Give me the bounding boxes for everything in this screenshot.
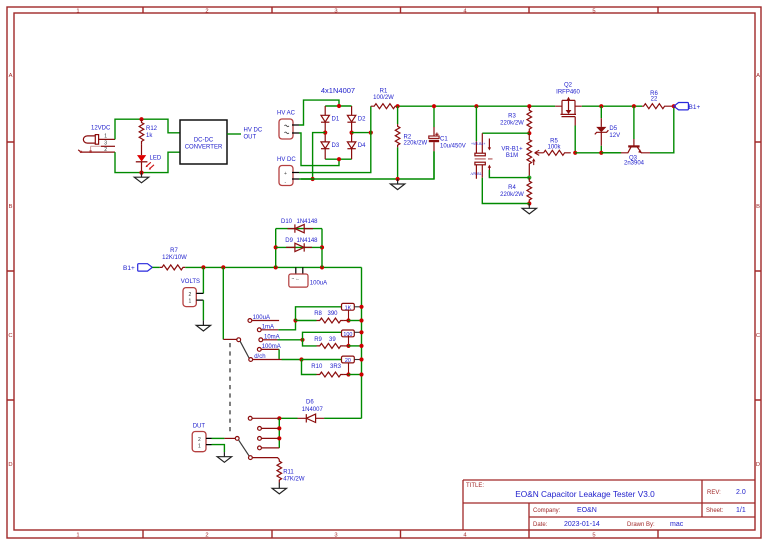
svg-text:R8: R8 bbox=[314, 311, 322, 317]
junction d/ch feed bbox=[299, 357, 303, 361]
svg-text:2: 2 bbox=[189, 292, 192, 298]
wire R1 right to Q2 bbox=[398, 105, 556, 107]
svg-text:R9: R9 bbox=[314, 337, 322, 343]
svg-text:4x1N4007: 4x1N4007 bbox=[321, 86, 355, 95]
svg-text:12K/10W: 12K/10W bbox=[162, 255, 187, 261]
junction C1 top bbox=[432, 104, 436, 108]
svg-text:~ ←: ~ ← bbox=[292, 276, 300, 281]
svg-text:100uA: 100uA bbox=[253, 315, 270, 321]
junction B1+ node bbox=[672, 104, 676, 108]
resistor R6 bbox=[642, 104, 673, 109]
contact deck2 d/ch bbox=[249, 456, 253, 460]
wire D6 left to contacts bus bbox=[279, 417, 297, 419]
svg-text:B: B bbox=[756, 204, 760, 210]
svg-text:1: 1 bbox=[76, 9, 79, 15]
resistor R10 bbox=[317, 372, 344, 377]
wire contact d/ch to R10 node bbox=[253, 359, 282, 361]
svg-text:+VR-B1+: +VR-B1+ bbox=[471, 142, 485, 146]
jack switch contact hook bbox=[78, 150, 81, 152]
DUT pin stubs bbox=[206, 438, 212, 444]
trimmer 20 right pin bbox=[354, 359, 361, 361]
svg-text:R10: R10 bbox=[311, 364, 323, 370]
wire R9 feed up to trimmer 100 bbox=[303, 332, 342, 340]
wire bridge top rail bbox=[325, 105, 351, 107]
TITLE BLOCK bbox=[463, 480, 755, 530]
trimmer 20 bottom pin bbox=[348, 363, 350, 375]
svg-text:Date:: Date: bbox=[533, 522, 548, 528]
svg-text:100k: 100k bbox=[547, 145, 561, 151]
svg-text:D9: D9 bbox=[285, 238, 293, 244]
wire R9 feed down bbox=[303, 340, 317, 346]
svg-text:1: 1 bbox=[104, 133, 107, 139]
svg-text:100mA: 100mA bbox=[262, 344, 281, 350]
svg-text:1N4007: 1N4007 bbox=[302, 407, 324, 413]
svg-text:Sheet:: Sheet: bbox=[706, 508, 724, 514]
plug top arrow bbox=[488, 147, 491, 150]
svg-text:1k: 1k bbox=[146, 133, 153, 139]
resistor R2 bbox=[395, 124, 400, 147]
wire contact2 stub bbox=[262, 427, 280, 429]
svg-text:5: 5 bbox=[592, 533, 595, 539]
svg-text:Q2: Q2 bbox=[564, 83, 573, 89]
svg-text:220k/2W: 220k/2W bbox=[500, 192, 524, 198]
svg-text:47K/2W: 47K/2W bbox=[283, 477, 305, 483]
wire D10 row bbox=[276, 228, 322, 230]
svg-text:IRFP460: IRFP460 bbox=[556, 90, 580, 96]
junction bridge mid-right bbox=[350, 131, 354, 135]
junction D-pair right bbox=[320, 265, 324, 269]
wire d/ch row to trimmer 20 bbox=[302, 359, 342, 361]
C1 top lead bbox=[433, 127, 435, 136]
wire contact1 stub bbox=[252, 417, 279, 419]
junction D9 left bbox=[274, 245, 278, 249]
svg-text:EO&N Capacitor Leakage Tester: EO&N Capacitor Leakage Tester V3.0 bbox=[515, 489, 655, 499]
svg-text:C: C bbox=[8, 333, 12, 339]
junction 10mA feed bbox=[300, 338, 304, 342]
wire contacts bus vertical bbox=[278, 418, 280, 448]
wire C1 bottom to gnd rail bbox=[433, 151, 435, 179]
svg-text:390: 390 bbox=[328, 311, 339, 317]
svg-text:R11: R11 bbox=[283, 470, 294, 476]
svg-text:Company:: Company: bbox=[533, 508, 561, 514]
wire Q3 collector bbox=[633, 106, 635, 139]
svg-text:+: + bbox=[284, 171, 287, 177]
top column ticks bbox=[143, 7, 658, 13]
VR lower adjust arrow bbox=[533, 161, 535, 166]
svg-text:D3: D3 bbox=[332, 143, 340, 149]
wire contact 100uA stub bbox=[252, 320, 279, 322]
svg-text:VR-B1+: VR-B1+ bbox=[501, 147, 523, 153]
svg-text:HV DC: HV DC bbox=[277, 157, 296, 163]
svg-text:22: 22 bbox=[651, 97, 658, 103]
switch SW1b wiper bbox=[239, 440, 249, 456]
resistor R3 bbox=[527, 106, 532, 133]
junction rail 1K bbox=[359, 305, 363, 309]
junction R2 top bbox=[396, 104, 400, 108]
junction rail 20 bbox=[359, 357, 363, 361]
svg-text:REV:: REV: bbox=[707, 490, 721, 496]
switch coupling dashed link bbox=[229, 343, 231, 434]
wire R8 right to rail bbox=[344, 320, 349, 322]
junction rail R8 bbox=[359, 318, 363, 322]
trimmer box 1K bbox=[342, 303, 355, 310]
diode D4 bbox=[347, 133, 355, 160]
MOSFET Q2 bbox=[555, 100, 582, 125]
ground under R11 bbox=[278, 483, 280, 489]
svg-text:1: 1 bbox=[189, 299, 192, 305]
ground under VOLTS bbox=[202, 320, 204, 325]
svg-text:D4: D4 bbox=[358, 143, 366, 149]
plug bottom arrow bbox=[488, 165, 491, 168]
svg-text:HV AC: HV AC bbox=[277, 111, 296, 117]
junction Q3 collector top bbox=[632, 104, 636, 108]
junction R8 right bbox=[346, 318, 350, 322]
capacitor C1 plates bbox=[429, 136, 439, 138]
junction HV+ node bbox=[369, 131, 373, 135]
LED light arrows bbox=[147, 162, 155, 168]
panel plug pair P1 bottom half bbox=[475, 162, 490, 179]
svg-text:-VR-B1-: -VR-B1- bbox=[470, 172, 483, 176]
junction LED bottom bbox=[139, 171, 143, 175]
junction rail R9 bbox=[359, 344, 363, 348]
switch SW1b pole contact bbox=[235, 437, 239, 441]
HV AC pin stubs bbox=[292, 125, 299, 133]
junction gnd rail bbox=[396, 177, 400, 181]
wire jack to R12 top rail bbox=[115, 119, 180, 139]
svg-text:R3: R3 bbox=[508, 114, 516, 120]
junction gate/R5 bbox=[573, 151, 577, 155]
diode D2 bbox=[347, 106, 355, 133]
LED cathode bar bbox=[136, 161, 148, 163]
wire HV DC OUT bbox=[227, 133, 241, 135]
svg-text:D1: D1 bbox=[332, 117, 340, 123]
wire contact4 stub bbox=[262, 447, 280, 449]
junction D5 bottom bbox=[599, 151, 603, 155]
wire R10 right to rail bbox=[344, 374, 349, 376]
junction D-pair left bbox=[274, 265, 278, 269]
wire plug top to VR top bbox=[482, 132, 529, 134]
trimmer 100 right pin bbox=[354, 331, 361, 333]
svg-text:DC-DC: DC-DC bbox=[194, 138, 214, 144]
contact deck2 pos4 bbox=[258, 446, 262, 450]
svg-text:2.0: 2.0 bbox=[736, 489, 746, 496]
junction R3 bottom / VR top bbox=[527, 131, 531, 135]
contact deck2 pos1 bbox=[248, 416, 252, 420]
svg-text:39: 39 bbox=[329, 337, 336, 343]
junction R4 bottom bbox=[527, 201, 531, 205]
resistor R7 bbox=[160, 265, 185, 270]
Q3 emitter arrow bbox=[638, 149, 642, 153]
wire mid-left to HV DC pin2 bbox=[301, 133, 325, 179]
svg-text:D6: D6 bbox=[306, 400, 314, 406]
wire rail to panel plug top bbox=[475, 106, 477, 141]
wire Q2 drain rail to R6 bbox=[582, 105, 642, 107]
svg-text:3R3: 3R3 bbox=[330, 364, 342, 370]
junction panel plug drop bbox=[474, 104, 478, 108]
wire LED gnd node to DC-DC lower pin bbox=[142, 152, 181, 172]
bottom column ticks bbox=[143, 530, 658, 538]
svg-text:220k/2W: 220k/2W bbox=[500, 121, 524, 127]
wire HV AC pin2 to bridge bottom bbox=[299, 133, 339, 166]
svg-text:HV DC: HV DC bbox=[244, 127, 263, 133]
capacitor C1 polarity + bbox=[435, 133, 438, 136]
wire mid-right to HV+ node bbox=[352, 132, 371, 134]
wire R8 feed up to trimmer 1K bbox=[296, 307, 342, 321]
diode D1 bbox=[321, 106, 329, 133]
wire C1 top bbox=[433, 106, 435, 127]
svg-text:R4: R4 bbox=[508, 185, 516, 191]
switch SW1a pole contact bbox=[237, 338, 241, 342]
svg-text:20: 20 bbox=[345, 358, 351, 364]
svg-text:3: 3 bbox=[334, 533, 337, 539]
junction bus 3 bbox=[277, 436, 281, 440]
trimmer box 100 bbox=[342, 330, 355, 337]
junction top of R12 bbox=[139, 117, 143, 121]
svg-text:DUT: DUT bbox=[193, 424, 206, 430]
wire R10 feed down bbox=[302, 360, 317, 375]
junction bridge bottom bbox=[337, 157, 341, 161]
connector VOLTS bbox=[183, 288, 196, 307]
svg-text:10u/450V: 10u/450V bbox=[440, 144, 466, 150]
connector HV DC bbox=[279, 166, 293, 186]
svg-text:B: B bbox=[9, 204, 13, 210]
svg-text:C1: C1 bbox=[440, 137, 448, 143]
HV DC pin stubs bbox=[292, 173, 299, 180]
C1 bottom lead bbox=[433, 142, 435, 151]
meter M1 body bbox=[289, 274, 308, 287]
junction VR bottom bbox=[527, 176, 531, 180]
pin 2 lead bbox=[81, 151, 115, 153]
DC-DC converter module U? bbox=[180, 120, 227, 164]
svg-text:2: 2 bbox=[104, 147, 107, 153]
wire DUT pin2 to pole bbox=[212, 437, 225, 439]
wire HV AC pin1 to bridge top bbox=[299, 100, 339, 125]
svg-text:5: 5 bbox=[592, 9, 595, 15]
transistor Q3 bbox=[621, 139, 650, 153]
wire D9 row bbox=[276, 246, 322, 248]
wire rail to VOLTS pin2 bbox=[202, 267, 204, 293]
junction contacts bus top bbox=[277, 416, 281, 420]
trimmer 100 bottom pin bbox=[348, 335, 350, 346]
svg-text:1: 1 bbox=[76, 533, 79, 539]
junction bridge top bbox=[337, 104, 341, 108]
wire HV+ vertical R1 left / HV DC pin1 bbox=[299, 106, 371, 172]
svg-text:2n3904: 2n3904 bbox=[624, 161, 645, 167]
junction D9 right bbox=[320, 245, 324, 249]
contact 100uA bbox=[248, 319, 252, 323]
wire metering rail vertical bbox=[361, 267, 363, 418]
panel plug pair P1 top half bbox=[475, 133, 490, 156]
resistor R8 bbox=[317, 318, 344, 323]
wire flag to R7 bbox=[152, 266, 160, 268]
svg-text:D2: D2 bbox=[358, 117, 366, 123]
svg-text:B1+: B1+ bbox=[689, 104, 701, 111]
connector DUT bbox=[192, 432, 206, 452]
wire D-pair left vertical bbox=[275, 229, 277, 268]
svg-text:EO&N: EO&N bbox=[577, 507, 597, 514]
diode D9 (cathode right) bbox=[286, 243, 312, 251]
wire Q2 gate down to R5 node bbox=[574, 126, 576, 153]
connector J1 12VDC barrel jack bbox=[83, 135, 98, 145]
svg-text:D5: D5 bbox=[609, 126, 617, 132]
svg-text:1: 1 bbox=[198, 444, 201, 450]
net flag B1+ (right) bbox=[674, 103, 689, 110]
svg-text:220k/2W: 220k/2W bbox=[404, 141, 428, 147]
wire Q3 emitter to B1+ node bbox=[650, 106, 674, 152]
svg-text:3: 3 bbox=[104, 141, 107, 147]
svg-text:CONVERTER: CONVERTER bbox=[185, 144, 223, 150]
resistor R4 bbox=[527, 178, 532, 204]
svg-text:LED: LED bbox=[150, 156, 162, 162]
wire R9 right to rail bbox=[344, 345, 349, 347]
svg-text:R1: R1 bbox=[380, 89, 388, 95]
junction R3 top bbox=[527, 104, 531, 108]
wire DUT pin1 to gnd bbox=[212, 445, 225, 453]
contact 100mA bbox=[257, 348, 261, 352]
resistor R5 bbox=[544, 150, 571, 155]
diode D3 bbox=[321, 133, 329, 160]
junction HV DC pin2 node bbox=[311, 177, 315, 181]
svg-text:1N4148: 1N4148 bbox=[297, 219, 319, 225]
junction rail 100 bbox=[359, 330, 363, 334]
right row ticks bbox=[755, 142, 761, 400]
resistor R9 bbox=[317, 343, 344, 348]
VOLTS pin stubs bbox=[196, 293, 203, 300]
left row ticks bbox=[7, 142, 14, 400]
svg-text:D: D bbox=[8, 462, 12, 468]
svg-text:2023-01-14: 2023-01-14 bbox=[564, 521, 600, 528]
contact 1mA bbox=[257, 328, 261, 332]
svg-text:TITLE:: TITLE: bbox=[466, 483, 484, 489]
diode D6 (cathode left) bbox=[298, 414, 325, 422]
wire contact3 stub bbox=[262, 437, 280, 439]
wire rail to D6 bbox=[324, 417, 361, 419]
svg-text:B1+: B1+ bbox=[123, 265, 135, 272]
wire rail down to switch pole bbox=[222, 267, 224, 339]
svg-text:A: A bbox=[9, 73, 13, 79]
meter M1 pins bbox=[296, 267, 303, 274]
wire R7 to meter rail bbox=[185, 266, 361, 268]
LED bottom lead bbox=[141, 162, 143, 173]
svg-text:2: 2 bbox=[205, 9, 208, 15]
contact deck2 pos3 bbox=[258, 437, 262, 441]
svg-text:1N4148: 1N4148 bbox=[297, 238, 319, 244]
svg-text:12VDC: 12VDC bbox=[91, 126, 111, 132]
wire D5 top bbox=[600, 106, 602, 118]
junction D5 top bbox=[599, 104, 603, 108]
svg-text:VOLTS: VOLTS bbox=[181, 279, 200, 285]
svg-text:R2: R2 bbox=[404, 135, 412, 141]
svg-text:R7: R7 bbox=[170, 248, 178, 254]
pin 1 lead bbox=[99, 138, 115, 140]
svg-text:3: 3 bbox=[334, 9, 337, 15]
svg-text:D10: D10 bbox=[281, 219, 293, 225]
contact d/ch bbox=[249, 358, 253, 362]
contact 10mA bbox=[259, 338, 263, 342]
Q2 channel down arrow bbox=[566, 110, 572, 114]
wire contact 10mA to R9 node bbox=[263, 339, 278, 341]
junction bus 2 bbox=[277, 426, 281, 430]
resistor R12 bbox=[139, 119, 144, 144]
svg-text:100/2W: 100/2W bbox=[373, 95, 394, 101]
plug separation dashes bbox=[475, 158, 493, 160]
svg-text:D: D bbox=[756, 462, 760, 468]
wire d/ch contact to R11 bbox=[253, 458, 280, 460]
switch SW1a wiper bbox=[240, 341, 249, 358]
trimmer box 20 bbox=[342, 356, 355, 363]
junction R10 right bbox=[346, 372, 350, 376]
svg-text:R12: R12 bbox=[146, 126, 158, 132]
wire 100mA down to d/ch row bbox=[278, 349, 280, 359]
connector HV AC bbox=[279, 119, 293, 139]
svg-text:1mA: 1mA bbox=[262, 324, 274, 330]
HV AC tilde marks bbox=[285, 125, 289, 127]
svg-text:Drawn By:: Drawn By: bbox=[627, 522, 655, 528]
wire plug left to R4 bottom bbox=[482, 178, 529, 204]
Q2 substrate up arrow bbox=[567, 97, 571, 100]
wire gate node to D5 bottom bbox=[575, 152, 621, 154]
net flag B1+ (left) bbox=[138, 264, 153, 271]
junction VOLTS drop bbox=[201, 265, 205, 269]
trimmer 1K bottom pin bbox=[348, 310, 350, 321]
svg-text:d/ch: d/ch bbox=[254, 354, 265, 360]
contact deck2 pos2 bbox=[258, 427, 262, 431]
ground under R2 bbox=[397, 179, 399, 184]
ground under LED bbox=[141, 173, 143, 178]
svg-text:B1M: B1M bbox=[506, 153, 518, 159]
resistor R11 bbox=[277, 459, 282, 482]
wire bridge bottom rail bbox=[325, 158, 351, 160]
wire contact 1mA to R8 node bbox=[262, 329, 279, 331]
wire plug right pin to VR bottom bbox=[489, 170, 529, 178]
junction switch drop bbox=[221, 265, 225, 269]
wire R2 bottom to gnd rail bbox=[397, 147, 399, 179]
resistor R1 bbox=[371, 104, 399, 109]
wire HV DC pin2 negative rail bbox=[299, 151, 434, 179]
svg-text:100uA: 100uA bbox=[310, 281, 327, 287]
diode D10 (cathode left) bbox=[288, 224, 314, 232]
svg-text:mac: mac bbox=[670, 521, 684, 528]
wire VOLTS pin1 to gnd bbox=[202, 300, 204, 320]
wire R8 row bbox=[296, 320, 317, 322]
ground under R4 bbox=[528, 204, 530, 209]
trimmer 1K right pin bbox=[354, 306, 361, 308]
svg-text:10mA: 10mA bbox=[264, 334, 280, 340]
wire D5 bottom to Q3 base bbox=[601, 152, 621, 154]
junction R9 right bbox=[346, 344, 350, 348]
zener D5 bbox=[600, 118, 602, 127]
svg-text:12V: 12V bbox=[609, 133, 620, 139]
svg-text:2: 2 bbox=[205, 533, 208, 539]
junction bridge mid-left bbox=[323, 131, 327, 135]
svg-text:100: 100 bbox=[343, 332, 352, 338]
LED D? lead bbox=[141, 145, 143, 155]
wire bottom rail to DC-DC pin 2 bbox=[115, 152, 142, 173]
svg-text:OUT: OUT bbox=[244, 135, 257, 141]
svg-text:2: 2 bbox=[198, 437, 201, 443]
svg-text:1/1: 1/1 bbox=[736, 507, 746, 514]
wire contact 100mA stub bbox=[262, 348, 280, 350]
pin 3 lead bbox=[101, 145, 115, 147]
wire R2 top bbox=[397, 106, 399, 124]
ground under DUT bbox=[223, 452, 225, 457]
LED triangle bbox=[137, 155, 146, 162]
svg-text:C: C bbox=[756, 333, 760, 339]
potentiometer VR-B1+ element bbox=[527, 133, 532, 177]
wire D-pair right vertical bbox=[321, 229, 323, 268]
svg-text:A: A bbox=[756, 73, 760, 79]
junction rail R10 bbox=[359, 372, 363, 376]
